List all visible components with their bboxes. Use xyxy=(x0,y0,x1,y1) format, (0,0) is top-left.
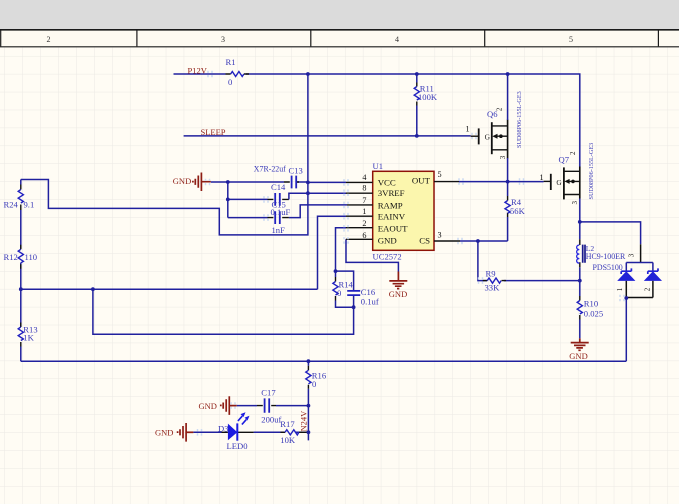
svg-text:R24: R24 xyxy=(4,200,19,210)
node L2 / R9 / R10 junction xyxy=(578,279,582,283)
svg-text:R12: R12 xyxy=(4,252,18,262)
top gray band xyxy=(0,0,679,29)
capacitor C13 xyxy=(254,165,303,189)
svg-text:1K: 1K xyxy=(23,333,34,343)
wire C17 row xyxy=(237,405,309,407)
node bottom rail / R16 junction xyxy=(307,359,311,363)
svg-text:200uf: 200uf xyxy=(261,414,281,424)
resistor R13 xyxy=(18,323,37,347)
node 3VREF pin junction xyxy=(306,191,310,195)
transistor Q7 SUD08P06-155L-GE3 xyxy=(540,143,595,205)
svg-text:3: 3 xyxy=(221,35,225,44)
svg-text:0.025: 0.025 xyxy=(584,309,603,319)
node R17 / N24V junction xyxy=(307,430,311,434)
svg-text:3: 3 xyxy=(628,253,636,257)
svg-text:D3: D3 xyxy=(218,424,229,434)
svg-text:1: 1 xyxy=(616,287,624,291)
svg-text:LED0: LED0 xyxy=(227,441,248,451)
node VCC pin junction xyxy=(306,181,310,185)
wire CS sense drop xyxy=(478,241,580,281)
svg-text:VCC: VCC xyxy=(378,177,396,187)
svg-text:9.1: 9.1 xyxy=(24,200,35,210)
svg-text:GND: GND xyxy=(378,235,397,245)
wire VCC pin xyxy=(308,181,346,183)
wire Q6 source to R4 xyxy=(507,158,509,241)
wire C15 row xyxy=(228,217,268,219)
svg-text:7: 7 xyxy=(362,196,366,205)
svg-text:10K: 10K xyxy=(280,435,296,445)
svg-text:8: 8 xyxy=(362,183,366,192)
compile tick marks xyxy=(198,71,625,436)
svg-text:0: 0 xyxy=(228,77,232,87)
resistor R17 xyxy=(280,419,307,445)
resistor R16 xyxy=(306,361,327,405)
svg-text:R17: R17 xyxy=(280,419,295,429)
svg-text:RAMP: RAMP xyxy=(378,201,403,211)
wire Q6 drain to rail xyxy=(507,74,509,120)
power ground GND (bar style) at LED xyxy=(155,423,193,442)
svg-text:P12V: P12V xyxy=(188,66,208,76)
LED D3 xyxy=(218,412,250,451)
transistor Q6 SUD08P06-155L-GE3 xyxy=(466,91,523,159)
svg-text:Q6: Q6 xyxy=(487,109,498,119)
node P12V / R11 junction xyxy=(415,72,419,76)
wire LED row xyxy=(193,431,284,433)
svg-text:56K: 56K xyxy=(510,206,526,216)
node R14-C16 bottom junction xyxy=(352,305,356,309)
svg-text:33K: 33K xyxy=(485,283,501,293)
svg-text:1: 1 xyxy=(362,207,366,216)
diode D dual schottky PDS5100 xyxy=(616,244,662,297)
svg-text:C13: C13 xyxy=(289,165,303,175)
svg-text:PDS5100: PDS5100 xyxy=(593,263,623,272)
svg-text:G: G xyxy=(485,133,491,142)
node C17 / N24V junction xyxy=(307,404,311,408)
svg-text:0.1uF: 0.1uF xyxy=(271,207,291,217)
inductor L2 xyxy=(577,222,626,281)
svg-text:EAINV: EAINV xyxy=(378,212,406,222)
resistor R4 xyxy=(505,197,526,216)
svg-text:1: 1 xyxy=(540,173,544,182)
svg-text:0: 0 xyxy=(337,288,341,298)
svg-text:3VREF: 3VREF xyxy=(378,188,405,198)
node P12V / Q6 drain junction xyxy=(506,72,510,76)
svg-text:N24V: N24V xyxy=(299,410,309,432)
svg-text:SUD08P06-155L-GE3: SUD08P06-155L-GE3 xyxy=(588,143,595,200)
svg-text:GND: GND xyxy=(199,401,217,411)
wire 3VREF pin xyxy=(308,192,346,194)
svg-text:C16: C16 xyxy=(361,287,376,297)
node CS sense junction xyxy=(476,239,480,243)
node Q7 source / L2 junction xyxy=(578,220,582,224)
wire N24V drop xyxy=(296,406,308,441)
svg-text:2: 2 xyxy=(47,35,51,44)
node OUT / Q6 source junction xyxy=(506,180,510,184)
svg-text:EAOUT: EAOUT xyxy=(378,223,408,233)
svg-text:R10: R10 xyxy=(584,299,598,309)
node EAINV / feedback drop junction xyxy=(91,287,95,291)
svg-text:1: 1 xyxy=(466,125,470,134)
wire U1 GND pin to ground xyxy=(346,239,398,271)
node EAINV / R12 junction xyxy=(19,287,23,291)
wire left divider chain xyxy=(20,180,22,362)
capacitor C17 xyxy=(257,387,281,424)
wire EAOUT net xyxy=(336,228,347,271)
svg-text:100K: 100K xyxy=(418,92,438,102)
svg-text:2: 2 xyxy=(643,287,651,291)
svg-text:2: 2 xyxy=(362,219,366,228)
svg-text:SLEEP: SLEEP xyxy=(201,127,226,137)
wire SLEEP xyxy=(184,135,471,137)
svg-text:GND: GND xyxy=(569,351,587,361)
header ruler row xyxy=(0,29,679,46)
svg-text:X7R-22uf: X7R-22uf xyxy=(254,165,286,174)
svg-text:0.1uf: 0.1uf xyxy=(361,297,379,307)
resistor R24 xyxy=(4,185,35,211)
ground GND (earth) below U1 xyxy=(389,272,408,300)
power ground GND (bar style) at C13 xyxy=(173,173,211,192)
capacitor C15 xyxy=(268,200,291,235)
wire EAINV net xyxy=(21,216,354,334)
IC U1 UC2572 xyxy=(346,161,460,262)
node SLEEP / R11 junction xyxy=(415,134,419,138)
resistor R11 xyxy=(414,74,438,136)
svg-text:5: 5 xyxy=(438,170,442,179)
svg-text:U1: U1 xyxy=(373,161,384,171)
resistor R9 xyxy=(483,269,506,293)
svg-text:6: 6 xyxy=(362,231,366,240)
node EAOUT / R14-C16 top junction xyxy=(334,269,338,273)
svg-text:GND: GND xyxy=(173,176,191,186)
resistor R14 xyxy=(333,271,354,307)
wire GND to C13 xyxy=(211,181,308,183)
svg-text:GND: GND xyxy=(155,428,173,438)
svg-text:3: 3 xyxy=(571,201,579,205)
svg-text:C17: C17 xyxy=(261,387,276,397)
wire left capacitor bus xyxy=(227,182,229,218)
svg-text:R1: R1 xyxy=(226,57,236,67)
capacitor C14 xyxy=(268,182,289,206)
svg-text:0: 0 xyxy=(312,379,316,389)
svg-text:Q7: Q7 xyxy=(559,155,570,165)
svg-text:110: 110 xyxy=(25,252,38,262)
resistor R1 xyxy=(226,57,250,87)
svg-text:SUD08P06-155L-GE3: SUD08P06-155L-GE3 xyxy=(516,91,523,148)
svg-text:3: 3 xyxy=(438,231,442,240)
wire bottom long rail xyxy=(21,360,627,362)
svg-text:2: 2 xyxy=(569,151,577,155)
wire Q7 source node xyxy=(580,199,641,245)
svg-text:C14: C14 xyxy=(271,182,286,192)
svg-text:4: 4 xyxy=(362,173,366,182)
resistor R12 xyxy=(4,245,38,269)
svg-text:3: 3 xyxy=(499,155,507,159)
power ground GND (bar style) at C17 xyxy=(199,396,237,415)
svg-text:4: 4 xyxy=(395,35,399,44)
node P12V / VCC-bus junction xyxy=(306,72,310,76)
svg-text:G: G xyxy=(556,178,562,187)
ground GND (earth) below R10 xyxy=(569,338,588,361)
wire C14 to 3VREF xyxy=(289,193,308,199)
wire C15 to RAMP xyxy=(289,205,347,218)
wire P12V rail xyxy=(174,74,580,167)
svg-text:1nF: 1nF xyxy=(272,225,286,235)
resistor R10 xyxy=(577,281,603,339)
wire VCC bus from P12V to U1 ladder xyxy=(21,74,308,235)
svg-text:5: 5 xyxy=(569,35,573,44)
svg-text:R9: R9 xyxy=(486,269,496,279)
svg-text:GND: GND xyxy=(389,289,407,299)
node C14 / left-bus junction xyxy=(226,198,230,202)
svg-text:CS: CS xyxy=(419,235,430,245)
svg-text:OUT: OUT xyxy=(412,176,431,186)
wire OUT row xyxy=(459,181,544,183)
wire C14 row xyxy=(228,198,268,200)
wire diode anode to bottom rail xyxy=(625,298,627,362)
node diode anode junction xyxy=(624,296,628,300)
svg-text:UC2572: UC2572 xyxy=(373,252,402,262)
wire CS row xyxy=(460,240,508,242)
node GND-C13 / left-bus junction xyxy=(226,180,230,184)
svg-text:HC9-100ER: HC9-100ER xyxy=(586,252,626,261)
capacitor C16 xyxy=(336,271,379,307)
